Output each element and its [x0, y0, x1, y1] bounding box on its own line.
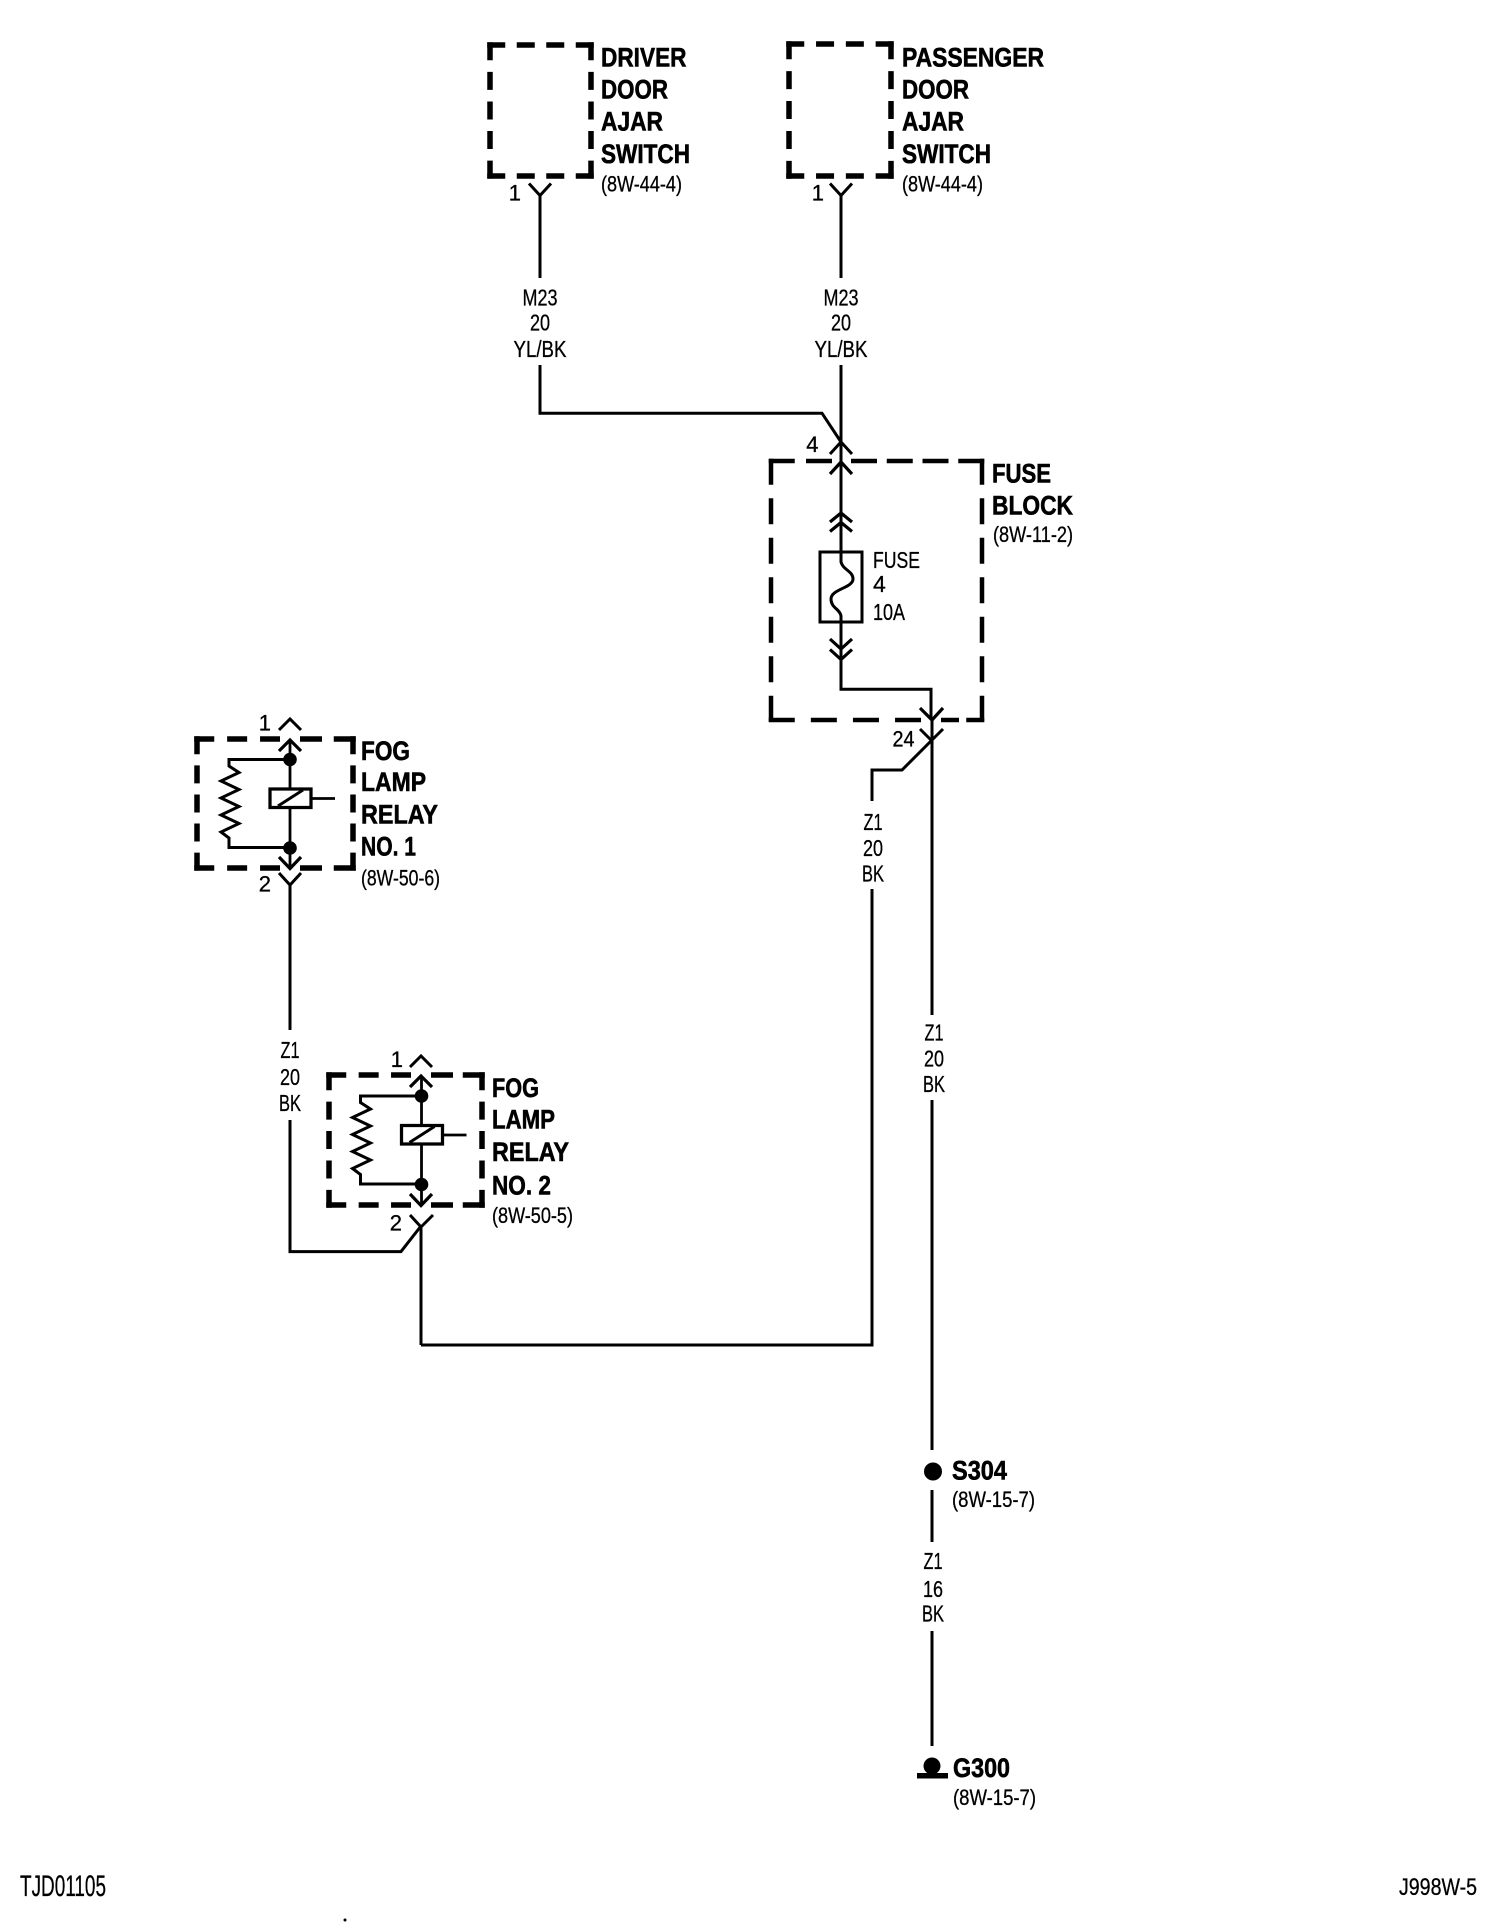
svg-text:(8W-15-7): (8W-15-7)	[952, 1487, 1035, 1512]
svg-text:Z1: Z1	[925, 1020, 944, 1046]
svg-text:FOG: FOG	[492, 1073, 539, 1103]
svg-text:PASSENGER: PASSENGER	[902, 43, 1044, 73]
svg-text:BK: BK	[922, 1601, 944, 1627]
svg-text:TJD01105: TJD01105	[20, 1870, 106, 1903]
svg-text:1: 1	[391, 1047, 403, 1072]
svg-text:BK: BK	[923, 1071, 945, 1097]
svg-text:SWITCH: SWITCH	[902, 139, 991, 169]
svg-text:DOOR: DOOR	[902, 75, 969, 105]
svg-text:Z1: Z1	[924, 1548, 943, 1574]
svg-text:RELAY: RELAY	[361, 800, 438, 830]
svg-text:(8W-50-5): (8W-50-5)	[492, 1203, 573, 1228]
svg-text:DRIVER: DRIVER	[601, 43, 687, 73]
svg-text:(8W-15-7): (8W-15-7)	[953, 1785, 1036, 1810]
svg-text:20: 20	[530, 310, 550, 336]
svg-text:RELAY: RELAY	[492, 1137, 569, 1167]
svg-text:FUSE: FUSE	[992, 459, 1051, 489]
svg-text:AJAR: AJAR	[601, 107, 663, 137]
svg-text:1: 1	[812, 181, 824, 206]
svg-text:24: 24	[893, 727, 915, 752]
svg-text:AJAR: AJAR	[902, 107, 964, 137]
svg-text:1: 1	[259, 711, 271, 736]
svg-text:BLOCK: BLOCK	[992, 491, 1073, 521]
svg-text:M23: M23	[523, 285, 558, 311]
svg-text:4: 4	[873, 571, 886, 597]
svg-text:YL/BK: YL/BK	[815, 336, 869, 362]
svg-text:(8W-44-4): (8W-44-4)	[601, 172, 682, 197]
svg-text:(8W-11-2): (8W-11-2)	[993, 522, 1073, 547]
svg-text:20: 20	[831, 310, 851, 336]
svg-text:LAMP: LAMP	[492, 1105, 555, 1135]
svg-text:FUSE: FUSE	[873, 547, 920, 573]
svg-text:NO. 2: NO. 2	[492, 1171, 551, 1201]
svg-text:Z1: Z1	[864, 809, 883, 835]
svg-text:SWITCH: SWITCH	[601, 139, 690, 169]
svg-text:(8W-44-4): (8W-44-4)	[902, 172, 983, 197]
svg-text:20: 20	[280, 1064, 300, 1090]
svg-text:Z1: Z1	[281, 1037, 300, 1063]
svg-text:(8W-50-6): (8W-50-6)	[361, 866, 440, 891]
svg-text:G300: G300	[953, 1753, 1010, 1783]
svg-text:J998W-5: J998W-5	[1399, 1874, 1477, 1901]
svg-text:16: 16	[923, 1576, 943, 1602]
svg-text:FOG: FOG	[361, 736, 410, 766]
svg-text:1: 1	[509, 181, 521, 206]
svg-text:20: 20	[863, 835, 883, 861]
svg-text:NO. 1: NO. 1	[361, 832, 416, 862]
svg-text:2: 2	[390, 1211, 402, 1236]
svg-text:BK: BK	[279, 1090, 301, 1116]
svg-text:DOOR: DOOR	[601, 75, 668, 105]
svg-text:2: 2	[259, 872, 271, 897]
svg-text:20: 20	[924, 1046, 944, 1072]
svg-text:4: 4	[806, 432, 818, 457]
svg-text:M23: M23	[824, 285, 859, 311]
svg-text:BK: BK	[862, 861, 884, 887]
svg-text:YL/BK: YL/BK	[514, 336, 568, 362]
svg-text:LAMP: LAMP	[361, 767, 426, 797]
svg-text:10A: 10A	[873, 599, 906, 625]
svg-text:S304: S304	[952, 1456, 1007, 1486]
